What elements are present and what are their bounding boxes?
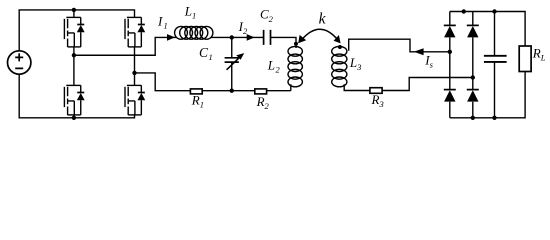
svg-text:R2: R2 xyxy=(256,94,270,111)
svg-text:k: k xyxy=(319,10,327,27)
svg-text:L1: L1 xyxy=(184,4,196,21)
svg-text:C1: C1 xyxy=(199,45,213,62)
svg-text:L2: L2 xyxy=(267,57,281,74)
svg-text:R3: R3 xyxy=(371,92,384,109)
svg-text:C2: C2 xyxy=(260,7,274,25)
svg-text:RL: RL xyxy=(532,46,546,63)
svg-text:Is: Is xyxy=(424,53,433,70)
svg-text:I1: I1 xyxy=(157,13,168,30)
svg-text:L3: L3 xyxy=(349,55,361,72)
svg-text:R1: R1 xyxy=(191,93,204,110)
svg-text:I2: I2 xyxy=(238,19,248,36)
